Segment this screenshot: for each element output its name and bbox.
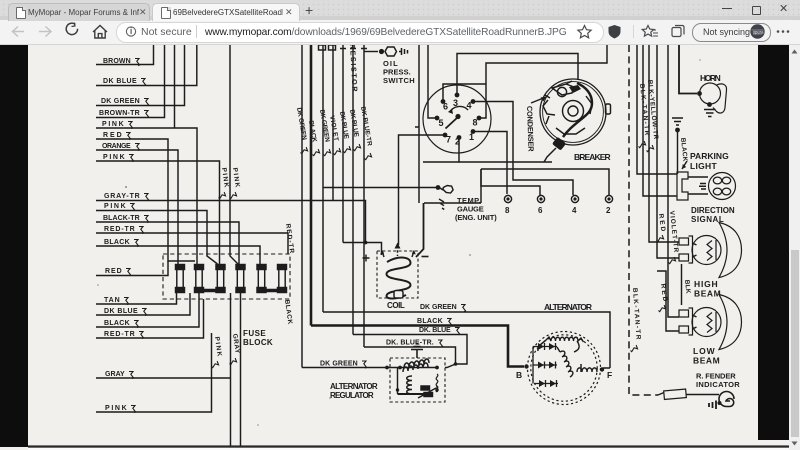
junction dot — [436, 185, 441, 190]
gauge feed terminal 6 — [537, 195, 544, 215]
svg-text:PARKING: PARKING — [690, 151, 729, 161]
svg-text:PINK: PINK — [103, 154, 125, 161]
rotated label BLK-TAN-TR (on dashed run) — [629, 288, 641, 352]
svg-text:8: 8 — [473, 118, 478, 128]
wire riser below fuse block (gray feed) — [230, 293, 232, 446]
ignition switch body — [423, 85, 491, 153]
svg-text:B: B — [516, 370, 522, 380]
svg-text:PINK: PINK — [104, 203, 126, 210]
label R. FENDER INDICATOR — [696, 372, 740, 390]
junction dot dk blue / dk blue-tr — [454, 362, 458, 366]
wire GRAY — [96, 371, 230, 379]
svg-text:www.mymopar.com/downloads/1969: www.mymopar.com/downloads/1969/69Belvede… — [204, 27, 567, 38]
wire pin5 stub — [428, 45, 437, 118]
svg-text:Not syncing: Not syncing — [703, 27, 750, 37]
alternator field coil lower right — [577, 368, 597, 372]
switch lever — [446, 117, 459, 129]
alternator F terminal — [600, 367, 604, 371]
wire DK BLUE (to coil +) — [342, 45, 344, 243]
oil pressure switch — [364, 47, 408, 56]
horn trumpet — [713, 84, 727, 113]
regulator resistor squiggle — [436, 374, 438, 392]
alternator rotor field coil (slanted) — [560, 351, 573, 377]
parking bulb ray marks — [699, 184, 706, 190]
rotated label PINK (right riser) — [228, 167, 240, 199]
svg-text:BROWN-TR: BROWN-TR — [99, 110, 140, 117]
indicator lamp (spiral) — [719, 392, 734, 407]
svg-text:TAN: TAN — [104, 297, 120, 304]
label CONDENSER (rotated) with pointer — [525, 97, 546, 152]
wire parking feed 2 — [643, 45, 677, 196]
wire DK BLUE run to regulator — [353, 327, 467, 364]
parking bulb — [709, 173, 736, 200]
svg-text:GRAY: GRAY — [105, 371, 125, 378]
svg-text:BLOCK: BLOCK — [243, 338, 273, 347]
parking lamp feeds into bulb — [688, 177, 708, 194]
svg-text:INDICATOR: INDICATOR — [696, 380, 740, 389]
wire violet-tr feed to low beam — [668, 45, 679, 317]
alternator B terminal — [524, 364, 528, 368]
regulator contact set — [396, 368, 439, 398]
svg-text:BLACK: BLACK — [417, 318, 443, 325]
regulator shunt coil — [407, 376, 414, 394]
wire DK GREEN 2 (temp gauge / lights) — [322, 45, 324, 312]
svg-text:DK. BLUE-TR.: DK. BLUE-TR. — [386, 340, 434, 347]
rotated label DK GREEN — [295, 107, 308, 154]
wire pin7 to coil tower — [399, 135, 446, 245]
horn terminal — [697, 91, 702, 96]
fuse F4 — [236, 265, 245, 293]
wire RED-TR (from fuse block bottom) — [96, 299, 204, 339]
nav icons — [0, 0, 800, 45]
wire PINK (to fuse 3) — [96, 154, 220, 264]
coil dashed case — [377, 251, 418, 298]
wire black down to parking lamp — [675, 128, 680, 174]
wire PINK (to fuse 2) — [96, 45, 197, 264]
home — [93, 26, 107, 39]
svg-text:FUSE: FUSE — [243, 329, 266, 338]
wire DK GREEN run (to lamps feed) — [323, 304, 610, 368]
wire pin3 to distributor primary — [457, 54, 578, 96]
wire DK BLUE — [96, 45, 197, 86]
back arrow (disabled) — [13, 27, 52, 37]
svg-text:4: 4 — [467, 101, 472, 111]
regulator series winding — [404, 359, 429, 368]
svg-text:BLACK: BLACK — [104, 239, 130, 246]
temp sender symbol — [439, 185, 454, 210]
rotated label BLACK — [307, 120, 320, 156]
label PARKING LIGHT — [690, 151, 729, 171]
url contents — [0, 0, 800, 45]
label DIRECTION SIGNAL — [691, 206, 735, 224]
coil - mark — [422, 256, 429, 258]
scan black margin right — [758, 45, 789, 440]
pin numbers — [439, 98, 478, 147]
fuse F1 — [176, 265, 185, 293]
breaker housing — [540, 79, 606, 145]
low beam socket — [679, 308, 693, 335]
svg-text:CONDENSER: CONDENSER — [525, 106, 536, 153]
scan black margin left — [0, 45, 28, 447]
svg-text:BLK: BLK — [683, 279, 691, 294]
breaker plate artwork — [543, 81, 592, 134]
wire coil negative run to terminal 2 — [424, 169, 609, 203]
rotated label PINK (bottom riser) — [210, 336, 222, 368]
label LOW BEAM — [693, 346, 720, 366]
condenser pigtail (thick) — [563, 83, 592, 137]
favorites bar star+lines — [642, 26, 654, 37]
wire pin8 to top trunk — [479, 45, 607, 118]
regulator junction dots — [385, 366, 389, 370]
svg-text:SWITCH: SWITCH — [383, 76, 415, 85]
wire BLACK heavy run to alternator B — [311, 318, 524, 367]
low beam filament — [707, 312, 716, 333]
svg-text:DK GREEN: DK GREEN — [101, 98, 140, 105]
wire high beam feed 2 — [657, 45, 679, 258]
parking label pointer — [682, 161, 687, 169]
svg-text:COIL: COIL — [387, 301, 406, 310]
fuse F3 — [216, 265, 225, 293]
svg-text:(ENG. UNIT): (ENG. UNIT) — [455, 213, 497, 222]
wire riser below fuse block (second) — [240, 293, 242, 446]
condenser lead to ground run — [544, 148, 556, 162]
rotated label BLK-YELLOW-TR — [645, 79, 659, 151]
wire DK BLUE-TR run to regulator — [364, 340, 456, 368]
wire stub left of switch — [415, 45, 419, 203]
indicator feed resistor — [658, 393, 664, 396]
svg-text:BLACK: BLACK — [104, 320, 130, 327]
fuse bus bar F2-F3 — [196, 289, 225, 292]
svg-text:DIRECTION: DIRECTION — [691, 206, 735, 215]
wire BROWN — [96, 45, 154, 66]
rotated label DK BLUE 2 — [348, 109, 361, 151]
distributor side terminal — [606, 104, 611, 114]
wire DK BLUE (from fuse block) — [96, 293, 190, 316]
svg-text:opera: opera — [753, 30, 764, 35]
gauge feed terminal 2 — [605, 195, 612, 215]
switch rotor arrow — [450, 106, 468, 112]
high beam socket — [679, 236, 693, 263]
label TEMP. GAUGE (ENG. UNIT) — [455, 196, 497, 222]
alternator diode bank — [533, 343, 558, 387]
wire BLACK heavy (to alternator B) — [310, 45, 313, 326]
svg-text:RED-TR: RED-TR — [104, 331, 135, 338]
label ALTERNATOR REGULATOR — [330, 382, 378, 400]
svg-text:BEAM: BEAM — [694, 289, 721, 299]
svg-text:ALTERNATOR: ALTERNATOR — [330, 382, 378, 391]
wire coil + feed — [343, 243, 382, 256]
low beam bulb — [692, 308, 721, 337]
label FUSE BLOCK — [243, 329, 273, 347]
regulator dashed case — [390, 358, 445, 402]
svg-text:1: 1 — [469, 132, 474, 142]
pin dots — [435, 93, 482, 140]
rotated label RED (lower) — [657, 283, 668, 312]
gauge feed terminal 8 — [504, 195, 511, 215]
svg-text:ORANGE: ORANGE — [102, 143, 131, 150]
svg-text:GRAY-TR: GRAY-TR — [104, 193, 140, 200]
wire temp gauge (dk green tap) — [323, 187, 438, 189]
svg-text:DK BLUE: DK BLUE — [103, 78, 137, 85]
ground (indicator) — [709, 401, 716, 410]
wire resistor to indicator — [686, 394, 719, 396]
wire pin1 to gauge terminal 8 — [473, 132, 507, 195]
collections icon — [672, 28, 681, 37]
high beam filament — [707, 240, 716, 261]
svg-text:LIGHT: LIGHT — [690, 161, 718, 171]
fuse F5 — [257, 265, 266, 293]
wire BLACK (to fuse 5) — [96, 239, 260, 264]
scan specks — [97, 59, 701, 426]
fuse F2 — [195, 265, 204, 293]
ground (parking light black wire) — [672, 118, 683, 125]
svg-text:BREAKER: BREAKER — [574, 152, 612, 162]
window controls — [722, 8, 732, 9]
coil terminal arrows — [382, 251, 414, 257]
low beam reflector — [719, 295, 742, 350]
svg-text:7: 7 — [446, 135, 451, 145]
svg-text:6: 6 — [538, 206, 543, 215]
low beam bulb neck — [693, 315, 697, 329]
svg-text:RED-TR: RED-TR — [104, 226, 135, 233]
svg-text:6: 6 — [443, 102, 448, 112]
wire ORANGE — [96, 143, 178, 264]
favourite star — [578, 26, 591, 38]
wire BLACK-TR (to fuse 4) — [96, 215, 239, 264]
svg-text:DK BLUE: DK BLUE — [104, 308, 138, 315]
parking lamp socket — [677, 172, 688, 200]
wire gauge terminal 6 feed — [481, 169, 540, 195]
svg-text:LOW: LOW — [693, 346, 716, 356]
refresh — [66, 23, 77, 35]
parking bulb filaments — [713, 177, 730, 195]
wire DK BLUE 2 — [352, 45, 354, 335]
svg-text:HIGH: HIGH — [694, 279, 718, 289]
rotated label GRAY (below fuse block) — [228, 333, 240, 365]
wire black link between beam sockets — [681, 264, 683, 305]
wire DK BLUE-TR — [363, 45, 365, 347]
svg-text:PINK: PINK — [105, 405, 127, 412]
rotated label PINK (left riser) — [217, 167, 229, 199]
coil winding — [387, 258, 411, 299]
breaker points pivot — [557, 87, 566, 96]
wire RED (to fuse block) — [96, 261, 168, 276]
wire low beam feed (red) — [657, 271, 679, 331]
wire PINK riser (from top edge to fuse 4) — [230, 45, 238, 264]
wire GRAY-TR (feeds coil +) — [96, 193, 366, 243]
fuse F6 — [278, 265, 287, 293]
svg-text:PINK: PINK — [102, 121, 124, 128]
wire PINK (bottom) — [96, 333, 212, 413]
wire DK GREEN (to regulator) — [301, 45, 303, 368]
svg-text:2: 2 — [606, 206, 611, 215]
svg-text:3: 3 — [453, 98, 458, 108]
wire BLK-TAN-TR dashed run to fender indicator — [629, 45, 658, 395]
wire pin6 riser — [443, 84, 486, 102]
svg-text:BEAM: BEAM — [693, 356, 720, 366]
svg-text:Not secure: Not secure — [141, 26, 192, 38]
shield extension icon — [609, 25, 621, 39]
high beam bulb — [692, 236, 721, 265]
svg-text:4: 4 — [572, 206, 577, 215]
coil tower arrow — [397, 246, 399, 256]
svg-text:RED: RED — [103, 132, 122, 139]
condenser body — [552, 137, 566, 151]
alternator stator winding top — [545, 337, 584, 342]
label HIGH BEAM — [694, 279, 721, 299]
wire pin4 to gauge terminal 4 — [473, 102, 573, 196]
alternator case (dashed circles) — [528, 332, 601, 405]
label OIL PRESS. SWITCH — [383, 59, 415, 85]
breaker cam — [563, 101, 584, 122]
wire condenser lead left part — [423, 161, 459, 163]
rotated label DK BLUE — [338, 111, 351, 153]
wire parking feed 1 — [637, 45, 677, 174]
high beam bulb neck — [693, 243, 697, 257]
svg-text:DK. BLUE: DK. BLUE — [419, 327, 451, 334]
wire RED-TR (to fuse block top right) — [96, 226, 288, 254]
fuse bus bar F5-F6 — [258, 289, 286, 292]
wire RED (upper) — [96, 132, 195, 261]
high beam reflector — [719, 223, 742, 278]
svg-text:F: F — [607, 370, 613, 380]
wire BLACK (from fuse 2) — [96, 293, 199, 328]
wire PINK (mid, to fuse 3) — [96, 203, 218, 264]
ground (horn) — [704, 110, 716, 117]
wire BROWN-TR — [96, 45, 165, 118]
svg-text:8: 8 — [505, 206, 510, 215]
wire coil - riser — [416, 203, 424, 257]
svg-text:5: 5 — [439, 118, 444, 128]
svg-text:ALTERNATOR: ALTERNATOR — [544, 302, 593, 312]
dots menu — [777, 30, 780, 33]
wire pin2 to condenser lead — [459, 138, 552, 163]
wire DK GREEN — [96, 45, 185, 106]
wire horn feed — [679, 45, 697, 94]
rotated label VIOLET-TR — [667, 210, 679, 263]
rotated label DK GREEN 2 — [318, 109, 331, 156]
horn body — [700, 83, 721, 104]
rotated label VIOLET — [328, 115, 341, 155]
svg-text:RED: RED — [105, 268, 122, 275]
wire high beam feed 1 — [649, 45, 679, 242]
fuse block dashed case — [163, 254, 290, 299]
rotated label DK BLUE-TR — [359, 106, 373, 160]
junction dot gray-tr/violet at coil feed — [364, 241, 368, 245]
wire TAN (from fuse 1) — [96, 293, 177, 305]
wire VIOLET — [332, 45, 334, 201]
svg-text:DK GREEN: DK GREEN — [420, 304, 457, 311]
alternator inner connections — [538, 341, 581, 372]
connector boxes at sheet top — [319, 45, 368, 50]
coil + mark — [363, 255, 370, 262]
coil base insulator — [394, 291, 403, 299]
svg-text:BLACK-TR: BLACK-TR — [103, 215, 140, 222]
rotated label RED (upper) — [655, 213, 666, 242]
wire DK GREEN regulator feed — [302, 361, 437, 369]
gauge feed terminal 4 — [571, 195, 578, 215]
rotated label BLK-TAN-TR (column) — [637, 83, 650, 147]
svg-text:HORN: HORN — [700, 73, 722, 83]
regulator ground strap — [411, 344, 423, 358]
scan bottom border line — [28, 445, 789, 447]
svg-text:REGULATOR: REGULATOR — [330, 391, 374, 400]
svg-text:DK GREEN: DK GREEN — [320, 361, 358, 368]
horn ground terminal — [707, 102, 712, 107]
